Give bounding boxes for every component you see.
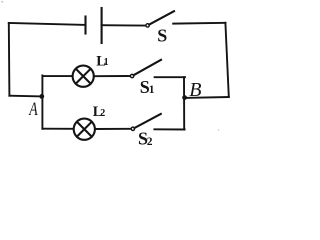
- wire: battery positive to switch S: [102, 24, 146, 26]
- switch S2 blade (open): [134, 114, 160, 128]
- wire: right rail to node B: [185, 96, 229, 99]
- wire: switch S1 to node B bus: [155, 76, 185, 78]
- wire: switch S to right rail: [173, 22, 225, 25]
- scan speck top-left: [2, 1, 4, 3]
- wire: left rail to node A: [9, 95, 41, 98]
- wire: switch S2 to node B bus: [154, 128, 184, 130]
- switch S1 blade (open): [134, 60, 161, 75]
- switch S2 pivot: [131, 127, 134, 130]
- svg-text:A: A: [28, 99, 38, 120]
- wire: node B vertical bus: [183, 77, 185, 129]
- switch S blade (open): [149, 11, 174, 24]
- svg-text:S: S: [157, 26, 167, 46]
- svg-text:L1: L1: [96, 54, 108, 70]
- svg-text:B: B: [189, 79, 201, 101]
- battery G1 negative plate (short): [84, 17, 86, 34]
- wire: node A vertical bus: [41, 75, 43, 128]
- svg-text:S2: S2: [138, 128, 153, 148]
- switch S1 pivot: [130, 74, 133, 77]
- switch S pivot: [146, 24, 149, 27]
- node A junction dot: [39, 94, 44, 99]
- wire: lamp L2 to switch S2: [95, 128, 131, 130]
- wire: top, left rail to battery negative: [9, 23, 86, 25]
- battery G1 positive plate (long): [101, 8, 103, 43]
- wire: node A bus to lamp L2: [42, 128, 72, 130]
- svg-text:L2: L2: [93, 104, 105, 120]
- wire: lamp L1 to switch S1: [94, 75, 130, 77]
- wire: right rail: [225, 23, 228, 97]
- svg-text:S1: S1: [140, 77, 155, 97]
- lamp L2: [74, 119, 95, 140]
- node B junction dot: [182, 95, 187, 100]
- scan speck bottom-right: [218, 129, 219, 130]
- wire: left rail: [8, 23, 11, 96]
- lamp L1: [73, 66, 94, 87]
- wire: node A bus to lamp L1: [42, 75, 72, 77]
